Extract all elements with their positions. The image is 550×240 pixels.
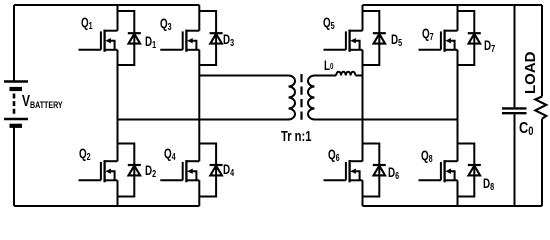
label Q4 — [164, 147, 176, 163]
diode D3 (anti-parallel branch, cathode bar + hollow triangle) — [199, 11, 222, 65]
capacitor C0 top plate — [502, 107, 527, 109]
inductor L0 (4 humps) — [336, 72, 355, 76]
label Q2 — [79, 147, 91, 163]
wire left edge top (rail to battery +) — [13, 5, 15, 81]
label Q6 — [328, 148, 340, 164]
wire Q2 source vertical (to bottom rail) — [117, 180, 119, 206]
wire primary bottom lead (Q1/Q2 midpoint to primary winding) — [118, 119, 289, 121]
wire right edge top (to load) — [541, 5, 543, 97]
label D5 — [391, 33, 402, 49]
wire bottom rail right (Q6/Q8 sources to output) — [363, 205, 543, 207]
diode D1 (anti-parallel branch, cathode bar + hollow triangle) — [118, 11, 141, 65]
wire secondary bottom lead (winding to Q7/Q8 midpoint) — [315, 119, 458, 121]
wire left edge bottom (battery - to rail) — [13, 126, 15, 206]
label L0 — [324, 59, 333, 73]
label Tr n:1 — [281, 130, 311, 145]
label D1 — [145, 35, 156, 51]
label D4 — [223, 163, 234, 179]
label LOAD (rotated) — [523, 52, 538, 95]
transistor Q6 (N-MOSFET: gate lead, gate bar, channel, drain, body arrow, source) — [324, 160, 363, 182]
wire Q1 drain vertical (top rail down) — [117, 5, 119, 31]
wire Q3 drain vertical (top rail down) — [198, 5, 200, 31]
diode D2 (anti-parallel branch, cathode bar + hollow triangle) — [118, 144, 141, 197]
transformer Tr primary winding (4 arcs) — [289, 76, 296, 120]
label Q1 — [81, 16, 93, 32]
label Q5 — [323, 16, 335, 32]
wire Q5 source to Q6 drain vertical (leg midpoint) — [362, 50, 364, 162]
label Q3 — [160, 17, 172, 33]
diode D8 (anti-parallel branch, cathode bar + hollow triangle) — [458, 144, 481, 197]
wire inductor L0 to Q5/Q6 midpoint — [355, 75, 362, 77]
wire top rail left (battery + to Q1/Q3 drains) — [14, 4, 199, 6]
wire Q4 source vertical (to bottom rail) — [198, 180, 200, 206]
wire secondary top lead to inductor — [315, 75, 337, 77]
wire Q5 drain vertical (top rail down) — [362, 5, 364, 31]
label V_BATTERY — [22, 94, 63, 110]
wire Q7 drain vertical (top rail down) — [457, 5, 459, 31]
wire Q8 source vertical (to bottom rail) — [457, 180, 459, 206]
battery V_BATTERY plate 1 (long, +) — [4, 80, 28, 82]
diode D4 (anti-parallel branch, cathode bar + hollow triangle) — [199, 144, 222, 197]
label Q8 — [421, 149, 433, 165]
transistor Q1 (N-MOSFET: gate lead, gate bar, channel, drain, body arrow, source) — [79, 30, 118, 52]
transistor Q7 (N-MOSFET: gate lead, gate bar, channel, drain, body arrow, source) — [419, 30, 458, 52]
transformer Tr core (dashed line) — [300, 74, 302, 121]
transistor Q8 (N-MOSFET: gate lead, gate bar, channel, drain, body arrow, source) — [419, 160, 458, 182]
diode D5 (anti-parallel branch, cathode bar + hollow triangle) — [363, 11, 386, 65]
resistor LOAD (zigzag) — [535, 97, 546, 119]
diode D7 (anti-parallel branch, cathode bar + hollow triangle) — [458, 11, 481, 65]
wire bottom rail left (battery - to Q2/Q4 sources) — [14, 205, 199, 207]
transistor Q3 (N-MOSFET: gate lead, gate bar, channel, drain, body arrow, source) — [160, 30, 199, 52]
wire primary top lead (Q3/Q4 midpoint to primary winding) — [199, 75, 288, 77]
label D2 — [145, 164, 156, 180]
wire Q1 source to Q2 drain vertical (leg midpoint) — [117, 50, 119, 162]
label D8 — [483, 177, 494, 193]
wire top rail right (Q5/Q7 drains to output) — [363, 4, 543, 6]
battery V_BATTERY omitted-cells dashed link — [13, 94, 16, 116]
transistor Q5 (N-MOSFET: gate lead, gate bar, channel, drain, body arrow, source) — [324, 30, 363, 52]
wire Q3 source to Q4 drain vertical (leg midpoint) — [198, 50, 200, 162]
wire Q7 source to Q8 drain vertical (leg midpoint) — [457, 50, 459, 162]
label Q7 — [422, 27, 434, 43]
label D3 — [223, 33, 234, 49]
label C0 — [519, 121, 533, 138]
battery V_BATTERY plate 3 (long, +) — [4, 118, 28, 120]
label D6 — [388, 166, 399, 182]
battery V_BATTERY plate 4 (short, -) — [10, 124, 23, 128]
wire capacitor branch bottom — [514, 114, 516, 206]
wire right edge bottom (load to rail) — [541, 119, 543, 206]
wire capacitor branch top — [514, 5, 516, 107]
transistor Q4 (N-MOSFET: gate lead, gate bar, channel, drain, body arrow, source) — [160, 160, 199, 182]
transistor Q2 (N-MOSFET: gate lead, gate bar, channel, drain, body arrow, source) — [79, 160, 118, 182]
label D7 — [484, 39, 495, 55]
battery V_BATTERY plate 2 (short, -) — [10, 87, 23, 91]
diode D6 (anti-parallel branch, cathode bar + hollow triangle) — [363, 144, 386, 197]
transformer Tr secondary winding (4 arcs) — [308, 76, 315, 120]
capacitor C0 bottom plate — [502, 112, 527, 114]
wire Q6 source vertical (to bottom rail) — [362, 180, 364, 206]
